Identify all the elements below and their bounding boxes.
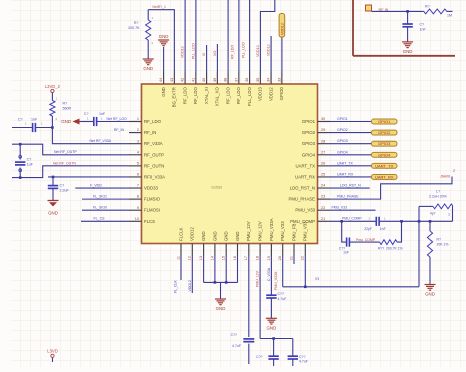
wire pin30 GPIO3 [330, 139, 372, 144]
wire pin40 (XTAL_XI stub) [206, 45, 208, 72]
svg-text:C??: C?? [256, 355, 262, 359]
svg-text:GND: GND [425, 292, 435, 297]
svg-text:37: 37 [234, 78, 238, 82]
svg-text:3: 3 [137, 139, 139, 143]
svg-text:L?: L? [436, 190, 440, 194]
svg-text:6: 6 [137, 173, 139, 177]
svg-text:GND: GND [48, 211, 58, 216]
svg-text:13: 13 [199, 256, 203, 260]
resistor R3 (from L3VD_2) [50, 97, 72, 128]
svg-text:38: 38 [224, 78, 228, 82]
wire pin24 PMU_V33 stub [330, 205, 376, 210]
svg-text:41: 41 [191, 78, 195, 82]
svg-text:11: 11 [176, 256, 180, 260]
IC bottom pins 11-22 [176, 218, 307, 260]
sheet boundary (top right) [353, 0, 455, 56]
power port L3VD (bottom left) [47, 349, 57, 363]
svg-text:22pF: 22pF [364, 227, 372, 231]
port GPIO2 [372, 130, 398, 135]
svg-text:VDD12: VDD12 [190, 227, 195, 241]
svg-text:RF_IN: RF_IN [114, 128, 125, 132]
svg-text:XI: XI [202, 53, 206, 56]
svg-text:RF0_V33A: RF0_V33A [144, 174, 165, 179]
svg-text:PMU_V33A: PMU_V33A [274, 271, 278, 290]
svg-text:VDD12: VDD12 [188, 280, 192, 291]
connector J6A06 labels [440, 169, 455, 179]
wire bottom rail y=287 [283, 286, 419, 289]
svg-text:GND: GND [235, 231, 240, 241]
svg-text:44: 44 [159, 78, 163, 82]
svg-text:GND: GND [159, 34, 169, 39]
capacitor C7 (series lower branch) [339, 238, 350, 255]
svg-text:34: 34 [267, 78, 271, 82]
svg-text:FL_CLK: FL_CLK [174, 279, 178, 293]
svg-text:27: 27 [321, 150, 325, 154]
svg-text:NetR?_1: NetR?_1 [153, 5, 166, 9]
svg-text:FLMSIO: FLMSIO [144, 197, 161, 202]
svg-text:1uF: 1uF [27, 163, 34, 167]
svg-text:26: 26 [321, 161, 325, 165]
svg-text:20: 20 [278, 256, 282, 260]
svg-text:5: 5 [137, 161, 139, 165]
svg-text:PMU_V33: PMU_V33 [295, 208, 315, 213]
svg-text:FL_SIO0: FL_SIO0 [93, 206, 107, 210]
resistor R1 200.7K [128, 10, 153, 59]
port GPIO4 [372, 152, 398, 157]
svg-text:BG_EXTR: BG_EXTR [172, 87, 177, 107]
capacitor C9 (shunt) [256, 339, 279, 367]
svg-text:RF_LDO: RF_LDO [193, 87, 198, 105]
resistor R4 200.7K (lower branch) [378, 240, 403, 251]
svg-text:PMU_COMP: PMU_COMP [342, 217, 362, 221]
svg-text:VDD13: VDD13 [181, 46, 185, 58]
wire pin31 GPIO2 [330, 128, 372, 133]
svg-text:14: 14 [210, 256, 214, 260]
svg-text:1nF: 1nF [420, 28, 427, 32]
svg-text:9: 9 [137, 206, 139, 210]
svg-text:PMU_PHASE: PMU_PHASE [288, 197, 315, 202]
wire node rail y=338.5 [260, 337, 293, 340]
svg-text:LDO_RST_N: LDO_RST_N [340, 184, 361, 188]
svg-text:VDD13: VDD13 [256, 45, 260, 57]
svg-text:1nF: 1nF [31, 118, 38, 122]
svg-text:L3VD: L3VD [47, 349, 57, 354]
svg-text:RF_LDO: RF_LDO [144, 119, 162, 124]
svg-text:PLL_LDO: PLL_LDO [191, 43, 195, 59]
wire pin9 FLMOSI [82, 206, 129, 211]
svg-text:40: 40 [202, 78, 206, 82]
svg-text:GPIO2: GPIO2 [378, 130, 391, 135]
svg-text:XTAL_XI: XTAL_XI [204, 87, 209, 104]
wire pin41 [195, 0, 197, 72]
svg-text:C??: C?? [299, 355, 305, 359]
svg-text:R?: R? [437, 238, 441, 242]
svg-text:R?: R? [134, 21, 139, 25]
svg-text:L3VD_2: L3VD_2 [45, 84, 61, 89]
svg-text:GPIO4: GPIO4 [378, 152, 391, 157]
svg-text:GND: GND [267, 326, 277, 331]
svg-text:1nF: 1nF [99, 112, 106, 116]
svg-text:PMU_12V: PMU_12V [246, 221, 251, 241]
capacitor C1 (shunt) [402, 11, 426, 42]
svg-text:PMU_V33A: PMU_V33A [269, 218, 274, 241]
svg-text:GND: GND [216, 306, 226, 311]
svg-text:UART_TX: UART_TX [375, 163, 393, 168]
svg-text:V3: V3 [315, 277, 319, 281]
ground (below C5, arrow style) [48, 201, 59, 216]
svg-text:GPIO4: GPIO4 [302, 152, 316, 157]
wire pin18 down to node rail [256, 256, 261, 339]
wire pin28 UART_TX [330, 161, 372, 166]
svg-text:FLCLK: FLCLK [178, 227, 183, 241]
svg-text:C?: C? [18, 118, 23, 122]
svg-text:Net RF_LDO: Net RF_LDO [107, 117, 128, 121]
svg-text:PLL_LDO: PLL_LDO [241, 42, 245, 58]
wire pin37 [238, 0, 240, 72]
svg-text:43: 43 [170, 78, 174, 82]
svg-text:4p7: 4p7 [430, 212, 436, 216]
sheet entry port RF IN [366, 5, 389, 12]
svg-text:39: 39 [213, 78, 217, 82]
wire pin5 RF_OUTN [12, 161, 129, 177]
wire with series capacitor C3 (to R3 junction) [12, 118, 54, 132]
svg-text:C??: C?? [231, 333, 237, 337]
svg-text:GPIO3: GPIO3 [337, 139, 348, 143]
svg-text:C??: C?? [278, 292, 284, 296]
svg-text:GPIO4: GPIO4 [337, 150, 348, 154]
svg-text:VDD12: VDD12 [267, 44, 271, 56]
power port L3VD_2 [45, 84, 61, 101]
svg-text:Pmu_COMP: Pmu_COMP [356, 238, 376, 242]
svg-text:RF_LDO: RF_LDO [183, 87, 188, 105]
svg-text:30: 30 [321, 117, 325, 121]
svg-text:2: 2 [137, 128, 139, 132]
port GPIO3 [372, 141, 398, 146]
svg-text:28: 28 [321, 139, 325, 143]
svg-text:R?: R? [425, 5, 430, 9]
wire pin25 PMU_PHASE to connector [330, 177, 452, 200]
wire pin27 UART_RX [330, 172, 372, 177]
svg-text:PMU_V33: PMU_V33 [280, 221, 285, 241]
svg-text:PMU_12V: PMU_12V [256, 270, 260, 287]
svg-text:GPIO3: GPIO3 [378, 141, 391, 146]
inductor L1 2.2uH [419, 190, 453, 209]
svg-text:20K 1%: 20K 1% [437, 243, 449, 247]
svg-text:1nF: 1nF [343, 251, 349, 255]
wire phase rail vertical (x=419) [418, 206, 421, 286]
svg-text:F_VDD: F_VDD [90, 183, 102, 187]
svg-text:GPIO0: GPIO0 [279, 87, 284, 101]
svg-text:GPIO1: GPIO1 [302, 119, 316, 124]
svg-text:VDD13: VDD13 [258, 87, 263, 101]
wire pin38 [227, 0, 229, 72]
svg-text:200.7K: 200.7K [128, 26, 140, 30]
wire pin17 with series capacitor C8 4.7uF [231, 256, 255, 364]
IC right pins 23-32 [288, 117, 330, 224]
svg-text:FLMOSI: FLMOSI [144, 208, 160, 213]
svg-text:R?: R? [63, 102, 68, 106]
wire pin29 GPIO4 [330, 150, 372, 155]
wire pin4 RF_OUTP [12, 144, 129, 155]
svg-text:PMU_12V: PMU_12V [258, 221, 263, 241]
svg-text:FLCS: FLCS [144, 219, 155, 224]
resistor R5 20K (to GND) [427, 212, 448, 285]
svg-text:GND: GND [212, 231, 217, 241]
capacitor C5 (shunt on pin6) [48, 177, 70, 201]
svg-text:2.2uH 20%: 2.2uH 20% [429, 195, 448, 199]
svg-text:UART_RX: UART_RX [337, 172, 354, 176]
svg-text:35: 35 [256, 78, 260, 82]
svg-text:R??: R?? [378, 247, 384, 251]
port GPIO1 [372, 119, 398, 124]
wire pin42 [184, 0, 186, 72]
capacitor C4 (between OUTP/OUTN rails) [15, 143, 34, 179]
svg-text:1nF: 1nF [380, 227, 386, 231]
svg-text:UART_TX: UART_TX [296, 163, 316, 168]
svg-text:21: 21 [321, 217, 325, 221]
svg-text:2: 2 [453, 169, 455, 173]
power port GND (arrow, pin1 row) [61, 119, 79, 125]
svg-text:4.7uF: 4.7uF [299, 360, 308, 364]
svg-text:Net RF_V33A: Net RF_V33A [90, 139, 112, 143]
svg-text:8: 8 [137, 195, 139, 199]
svg-text:24: 24 [321, 184, 325, 188]
port VDD12 (vertical, top) [279, 14, 285, 38]
svg-text:VDD12: VDD12 [269, 87, 274, 101]
wire pin19 with capacitor C11 to ground [266, 256, 286, 318]
svg-text:UART_RX: UART_RX [375, 175, 394, 180]
wire RF IN [372, 10, 424, 13]
svg-text:C?: C? [420, 23, 425, 27]
ground (pin19) [266, 318, 277, 330]
svg-text:GND: GND [161, 87, 166, 97]
svg-text:RF_LDO: RF_LDO [226, 87, 231, 105]
svg-text:RF_IN: RF_IN [144, 130, 156, 135]
svg-text:4.7uF: 4.7uF [278, 297, 287, 301]
ground (below R1) [143, 59, 154, 71]
svg-text:GPIO2: GPIO2 [337, 128, 348, 132]
wire pin33 to port [281, 37, 283, 72]
wire pin39 (XTAL_XO stub) [216, 44, 218, 72]
ground (bottom right) [425, 285, 436, 297]
svg-text:Net RF_OUTP: Net RF_OUTP [54, 150, 77, 154]
svg-text:1: 1 [137, 117, 139, 121]
wire pin11 FLCLK stub [174, 256, 182, 293]
svg-text:GND: GND [143, 66, 153, 71]
wire pin6 RF0_V33A [48, 176, 129, 179]
resistor R2 (series, top right) [424, 5, 453, 18]
svg-text:PMU_FB: PMU_FB [291, 223, 296, 241]
svg-text:C_V33A: C_V33A [267, 267, 271, 281]
svg-text:RF_OUTP: RF_OUTP [144, 152, 164, 157]
svg-text:PMU_V33: PMU_V33 [303, 221, 308, 241]
svg-text:200.7K 1%: 200.7K 1% [386, 247, 403, 251]
svg-text:XO: XO [213, 51, 217, 56]
wire pin7 VDD33 [75, 183, 129, 188]
capacitor C10 (shunt) [288, 339, 308, 367]
svg-text:GND: GND [61, 119, 71, 124]
svg-text:XTAL_XO: XTAL_XO [215, 87, 220, 107]
svg-text:GPIO2: GPIO2 [302, 130, 316, 135]
svg-text:36: 36 [245, 78, 249, 82]
port UART_RX [372, 175, 398, 180]
svg-text:RF_LDO: RF_LDO [236, 87, 241, 105]
svg-text:VDD12: VDD12 [280, 23, 284, 35]
svg-text:GND: GND [201, 231, 206, 241]
wire pin34 stub [270, 36, 272, 72]
IC top pins 33-44 [159, 72, 284, 107]
svg-text:Net RF_OUTN: Net RF_OUTN [53, 161, 76, 165]
svg-text:UART_TX: UART_TX [337, 161, 354, 165]
svg-text:RF_V33A: RF_V33A [144, 141, 163, 146]
svg-text:1M: 1M [447, 14, 452, 18]
ground (top right) [402, 42, 413, 54]
svg-text:C?: C? [84, 112, 89, 116]
svg-text:10: 10 [135, 217, 139, 221]
svg-text:FL_CS: FL_CS [94, 217, 106, 221]
svg-text:33: 33 [277, 78, 281, 82]
svg-text:FL_SIO1: FL_SIO1 [93, 195, 107, 199]
svg-text:25: 25 [321, 173, 325, 177]
svg-text:J6A06: J6A06 [440, 175, 450, 179]
svg-text:18: 18 [256, 256, 260, 260]
svg-text:UART_RX: UART_RX [295, 174, 315, 179]
wire pin21 stub [293, 256, 295, 264]
svg-text:GND: GND [224, 231, 229, 241]
svg-text:22: 22 [301, 256, 305, 260]
svg-text:RF_LDO: RF_LDO [231, 45, 235, 59]
svg-text:16: 16 [233, 256, 237, 260]
svg-text:560R: 560R [63, 107, 72, 111]
wire pins 13-16 GND join [204, 256, 238, 299]
ground (power port above pin 44) [158, 34, 169, 72]
svg-text:PMU_PHASE: PMU_PHASE [337, 195, 359, 199]
wire pin10 FLCS [81, 217, 129, 222]
svg-text:15: 15 [222, 256, 226, 260]
wire junction down to pin3 row [52, 128, 129, 144]
svg-text:RF_OUTN: RF_OUTN [144, 163, 164, 168]
wire pin35 (jog) [260, 0, 274, 72]
capacitor C6 (series on COMP row) [364, 216, 452, 231]
svg-text:GPIO1: GPIO1 [337, 117, 348, 121]
svg-text:2.2uF: 2.2uF [60, 189, 70, 193]
svg-text:19: 19 [267, 256, 271, 260]
svg-text:VDD33: VDD33 [144, 186, 158, 191]
svg-text:GPIO1: GPIO1 [378, 119, 391, 124]
wire pin26 LDO_RST_N stub [330, 184, 370, 189]
wire pin36 [249, 0, 251, 72]
wire pin23 PMU_COMP row [330, 217, 376, 223]
port UART_TX [372, 163, 398, 168]
svg-text:C?: C? [60, 184, 65, 188]
wire pin22 down to rail [305, 256, 319, 287]
svg-text:12: 12 [188, 256, 192, 260]
wire pin20 PMU_V33 down to rail [274, 256, 283, 290]
svg-text:7: 7 [137, 184, 139, 188]
wire pin43 to resistor R1 [148, 5, 174, 72]
wire COMP lower branch [342, 221, 402, 242]
svg-text:4.7uF: 4.7uF [232, 344, 241, 348]
svg-text:1: 1 [448, 213, 450, 217]
op-amp U1 (main IC body) [142, 84, 318, 244]
svg-text:PMU_V33: PMU_V33 [332, 205, 348, 209]
wire inductor right end down to PMU_COMP rail [448, 206, 453, 221]
wire pin12 VDD12 stub [188, 256, 192, 293]
svg-text:21: 21 [289, 256, 293, 260]
svg-text:GND: GND [403, 49, 413, 54]
svg-text:C?: C? [27, 158, 32, 162]
svg-text:42: 42 [181, 78, 185, 82]
ground (bottom center) [215, 299, 226, 311]
svg-text:29: 29 [321, 128, 325, 132]
svg-text:4: 4 [137, 150, 139, 154]
svg-text:PLL_LDO: PLL_LDO [247, 87, 252, 107]
svg-text:LDO_RST_N: LDO_RST_N [290, 186, 315, 191]
svg-text:22: 22 [321, 206, 325, 210]
wire pin32 GPIO1 [330, 117, 372, 122]
wire pin8 FLMSIO [82, 195, 129, 200]
IC left pins 1-10 [129, 117, 165, 224]
svg-text:23: 23 [321, 195, 325, 199]
svg-text:tcs53l1: tcs53l1 [212, 185, 223, 189]
svg-text:17: 17 [244, 256, 248, 260]
svg-text:GPIO3: GPIO3 [302, 141, 316, 146]
wire pin1 RF_LDO with series capacitor C2 [80, 112, 130, 126]
